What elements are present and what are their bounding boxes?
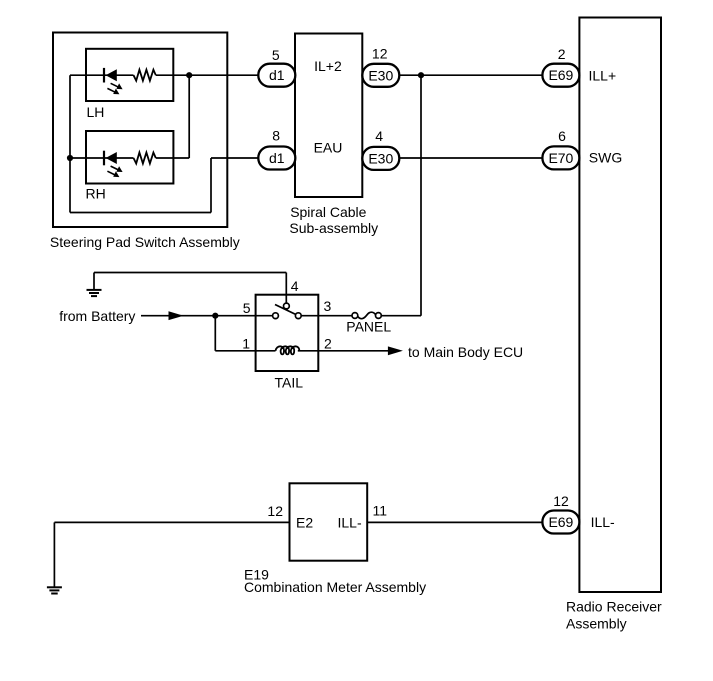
wire E19 to E69	[367, 521, 542, 523]
LED RH	[104, 151, 123, 177]
svg-text:4: 4	[291, 278, 299, 294]
svg-text:12: 12	[372, 45, 388, 61]
svg-text:E69: E69	[548, 514, 573, 530]
box Spiral Cable Sub-assembly	[295, 34, 362, 198]
svg-text:6: 6	[558, 128, 566, 144]
box E19 Combination Meter Assembly	[290, 483, 368, 560]
svg-text:RH: RH	[86, 186, 106, 202]
switch contact pin 3	[295, 313, 301, 319]
ground G1	[87, 290, 102, 296]
wire pin 3 to PANEL	[301, 315, 352, 317]
svg-text:SWG: SWG	[589, 150, 622, 166]
junction node ILL branch	[418, 72, 424, 78]
svg-text:from Battery: from Battery	[59, 308, 135, 324]
junction node LH-d1	[186, 72, 192, 78]
svg-text:1: 1	[242, 335, 250, 351]
switch contact pin 4	[284, 303, 290, 309]
svg-text:Steering Pad Switch Assembly: Steering Pad Switch Assembly	[50, 234, 240, 250]
svg-text:E30: E30	[368, 150, 393, 166]
coil TAIL	[276, 346, 300, 354]
box LH switch	[86, 49, 173, 101]
arrow from Battery	[169, 311, 184, 320]
svg-text:Radio Receiver: Radio Receiver	[566, 599, 662, 615]
arrow to Main Body ECU	[388, 346, 403, 355]
wire RH row left	[70, 157, 134, 159]
svg-text:5: 5	[272, 47, 280, 63]
svg-text:E69: E69	[548, 67, 573, 83]
wire LH row left	[70, 74, 134, 76]
connector E70 pin 6	[542, 146, 579, 169]
junction node RH-left	[67, 155, 73, 161]
svg-text:Combination Meter Assembly: Combination Meter Assembly	[244, 579, 426, 595]
wire pin4 vertical	[285, 273, 287, 304]
LED LH	[104, 68, 123, 94]
box light control switch	[256, 295, 319, 371]
svg-text:5: 5	[243, 300, 251, 316]
wire bottom row left	[54, 521, 289, 523]
wire RH row right	[156, 157, 189, 159]
svg-text:to Main Body ECU: to Main Body ECU	[408, 344, 523, 360]
svg-text:12: 12	[553, 493, 569, 509]
wire to pin 1	[215, 350, 275, 352]
connector E69 pin 12	[542, 511, 579, 534]
switch blade	[275, 305, 299, 317]
switch contact pin 5	[273, 313, 279, 319]
wire left vertical	[69, 75, 71, 212]
wire pin4 horizontal	[94, 272, 286, 274]
wire E30-4 to E70-6	[399, 157, 542, 159]
wire vertical from LH junction	[188, 75, 190, 158]
svg-text:ILL-: ILL-	[591, 514, 615, 530]
connector E30 pin 4	[362, 147, 399, 170]
box Steering Pad Switch Assembly	[53, 33, 227, 228]
box RH switch	[86, 131, 173, 184]
wire pin 2 out	[298, 350, 389, 352]
wire ground1 drop	[93, 273, 95, 290]
wire vertical ILL branch to PANEL	[420, 75, 422, 316]
wire PANEL to vertical	[381, 315, 421, 317]
wire right-loop vertical	[210, 158, 212, 213]
svg-text:ILL+: ILL+	[589, 68, 617, 84]
connector E30 pin 12	[362, 64, 399, 87]
ground G2	[47, 587, 62, 593]
svg-text:Assembly: Assembly	[566, 616, 627, 632]
svg-text:PANEL: PANEL	[346, 319, 391, 335]
resistor LH	[134, 70, 156, 81]
wire to d1 pin8	[211, 157, 258, 159]
PANEL contact right	[376, 313, 382, 319]
svg-text:TAIL: TAIL	[275, 375, 304, 391]
resistor RH	[134, 153, 156, 164]
svg-text:2: 2	[558, 46, 566, 62]
svg-text:E2: E2	[296, 514, 313, 530]
wire LH row right	[156, 74, 258, 76]
svg-text:3: 3	[324, 298, 332, 314]
svg-text:8: 8	[272, 128, 280, 144]
wire battery to coil row	[214, 316, 216, 351]
PANEL contact left	[352, 313, 358, 319]
wire from Battery	[141, 315, 273, 317]
svg-text:12: 12	[267, 503, 283, 519]
junction node battery/tail	[212, 313, 218, 319]
svg-text:Spiral Cable: Spiral Cable	[290, 204, 366, 220]
svg-text:LH: LH	[87, 104, 105, 120]
svg-text:E30: E30	[368, 67, 393, 83]
connector d1 pin 8	[258, 147, 295, 170]
svg-text:d1: d1	[269, 150, 285, 166]
svg-text:d1: d1	[269, 67, 285, 83]
svg-text:4: 4	[375, 128, 383, 144]
box Radio Receiver Assembly	[579, 18, 661, 593]
wire E30-12 to E69-2	[399, 74, 542, 76]
svg-text:2: 2	[324, 335, 332, 351]
svg-text:E70: E70	[548, 150, 573, 166]
svg-text:IL+2: IL+2	[314, 58, 342, 74]
PANEL contact wave	[358, 312, 376, 318]
wire bottom horizontal	[70, 212, 211, 214]
wire ground2 drop	[53, 522, 55, 586]
svg-text:Sub-assembly: Sub-assembly	[289, 220, 378, 236]
connector E69 pin 2	[542, 64, 579, 87]
connector d1 pin 5	[258, 64, 295, 87]
svg-text:ILL-: ILL-	[338, 514, 362, 530]
svg-text:EAU: EAU	[314, 140, 343, 156]
svg-text:11: 11	[373, 503, 388, 519]
